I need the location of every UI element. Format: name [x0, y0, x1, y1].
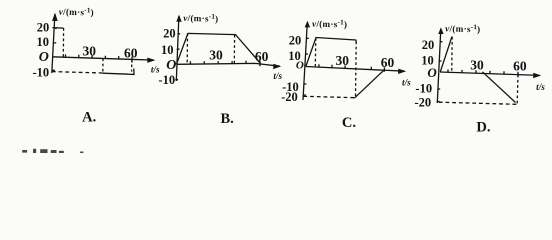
graph B y-axis arrowhead: [176, 15, 181, 22]
graph D y-axis: [437, 29, 441, 103]
graph B x-axis ticks: [190, 61, 260, 67]
svg-text:C.: C.: [342, 115, 356, 131]
svg-text:30: 30: [209, 47, 223, 62]
graph B dashed vertical at t=8: [186, 34, 188, 65]
svg-text:20: 20: [37, 20, 50, 34]
svg-text:t/s: t/s: [536, 82, 545, 92]
graph A solid segment v=20: [52, 27, 63, 30]
graph B dashed vertical at t=42: [233, 35, 235, 65]
svg-text:v/(m·s-1): v/(m·s-1): [312, 18, 347, 30]
graph A dashed vertical at t=38: [102, 58, 104, 73]
svg-text:60: 60: [255, 49, 269, 64]
graph C dashed vertical at t=8: [314, 38, 317, 66]
svg-text:-20: -20: [281, 90, 298, 104]
svg-text:30: 30: [83, 44, 97, 59]
graph C solid diagonal rising from -20 to 0 at t=60: [354, 70, 384, 99]
svg-text:t/s: t/s: [273, 71, 282, 81]
svg-text:A.: A.: [82, 110, 96, 126]
graph D y-axis ticks: [437, 42, 443, 102]
svg-text:v/(m·s-1): v/(m·s-1): [445, 22, 480, 34]
svg-text:v/(m·s-1): v/(m·s-1): [183, 12, 218, 24]
graph D solid diagonal descending to -20: [482, 72, 515, 103]
graph B x-axis arrowhead: [273, 64, 281, 69]
svg-text:20: 20: [422, 38, 435, 52]
svg-text:60: 60: [124, 46, 138, 61]
svg-text:10: 10: [37, 35, 50, 49]
graph C x-axis ticks: [319, 64, 385, 72]
svg-text:O: O: [166, 58, 176, 73]
svg-text:-10: -10: [33, 66, 50, 80]
svg-text:D.: D.: [476, 119, 490, 135]
graph D x-axis arrowhead: [533, 73, 541, 78]
graph B y-axis ticks: [175, 34, 180, 80]
graph D x-axis: [440, 72, 540, 75]
svg-text:60: 60: [381, 55, 395, 70]
graph A dashed vertical at t=60: [131, 59, 133, 71]
graph C dashed horizontal at v=-20: [303, 96, 355, 97]
graph C y-axis: [303, 23, 307, 101]
svg-text:20: 20: [289, 34, 302, 48]
svg-text:30: 30: [336, 53, 350, 68]
graph C x-axis: [306, 67, 405, 72]
graph A dashed horizontal at v=-10: [52, 72, 103, 73]
svg-text:10: 10: [161, 43, 174, 57]
graph D dashed vertical at t=9: [451, 37, 454, 73]
graph D dashed vertical at t=60: [516, 75, 519, 104]
graph A dashed vertical at t=8: [62, 28, 64, 57]
graph A x-axis ticks: [66, 54, 133, 62]
graph D x-axis ticks: [448, 69, 518, 76]
graph A x-axis arrowhead: [147, 58, 155, 63]
graph A y-axis: [52, 14, 55, 73]
graph A x-axis: [52, 57, 154, 60]
graph C solid rise and v=20 plateau: [306, 38, 357, 67]
svg-text:-10: -10: [415, 82, 432, 96]
graph A y-axis ticks: [52, 28, 57, 70]
graph A y-axis arrowhead: [52, 13, 58, 21]
graph D y-axis arrowhead: [438, 27, 443, 34]
svg-text:t/s: t/s: [402, 78, 411, 88]
svg-text:O: O: [296, 59, 304, 71]
cropped text fragments at bottom edge: [22, 149, 83, 153]
svg-text:60: 60: [513, 59, 527, 74]
svg-text:20: 20: [163, 27, 176, 41]
graph C dashed vertical at t=40: [355, 42, 358, 97]
svg-text:-10: -10: [158, 73, 175, 87]
svg-text:B.: B.: [220, 111, 233, 127]
svg-text:O: O: [427, 65, 437, 80]
graph B y-axis: [176, 16, 179, 81]
graph D solid steep rise from 0 to 20: [440, 37, 452, 72]
svg-text:30: 30: [470, 57, 484, 72]
graph C y-axis ticks: [303, 38, 309, 95]
graph A solid segment v=-10 from t=38 to t=60: [103, 69, 135, 75]
graph C x-axis arrowhead: [398, 69, 406, 74]
graph B x-axis: [177, 63, 280, 66]
svg-text:v/(m·s-1): v/(m·s-1): [59, 6, 94, 18]
graph C y-axis arrowhead: [305, 21, 310, 28]
graph D dashed horizontal at v=-20: [439, 102, 517, 104]
svg-text:O: O: [39, 50, 49, 65]
svg-text:-20: -20: [415, 96, 432, 110]
graph B trapezoid solid line: [177, 33, 261, 64]
